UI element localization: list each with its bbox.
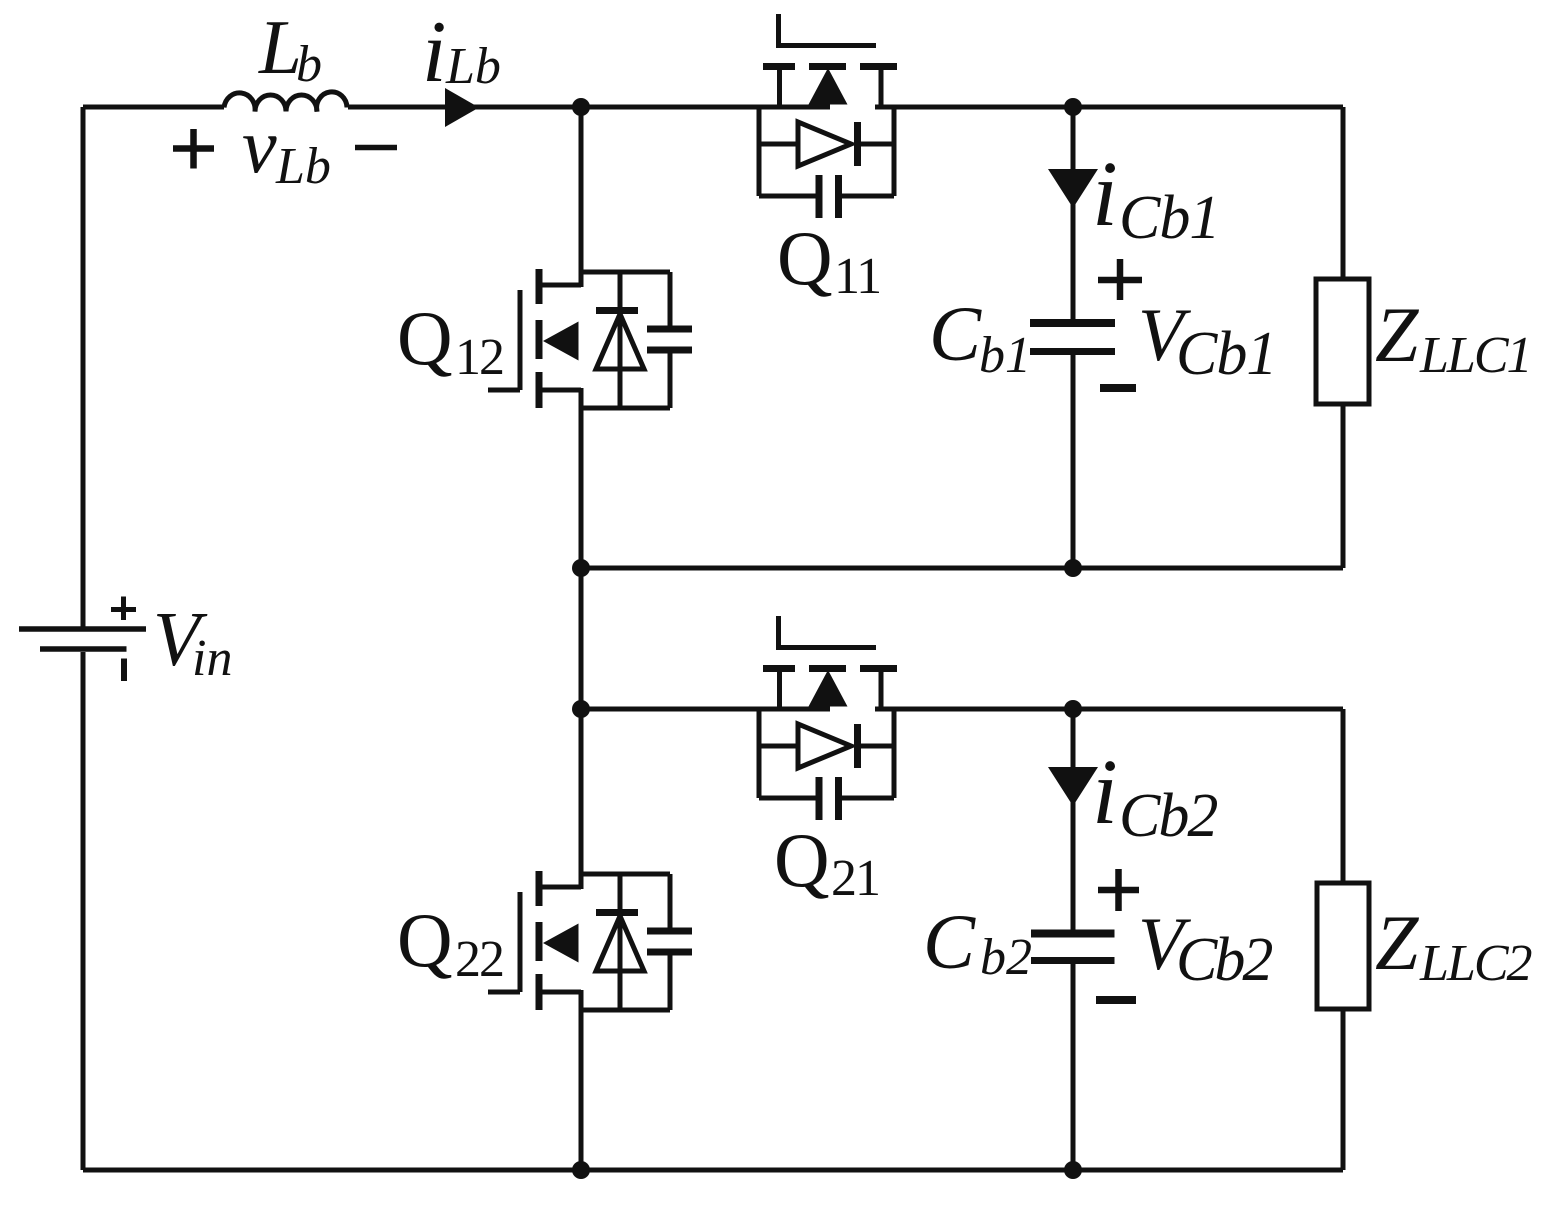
- svg-text:Lb: Lb: [445, 38, 501, 95]
- capacitor Cb2 lower lead: [1071, 964, 1076, 1170]
- Q22 box bottom: [581, 1008, 670, 1013]
- svg-text:22: 22: [455, 931, 503, 988]
- svg-text:Q: Q: [397, 897, 453, 983]
- arrow iLb: [445, 88, 479, 127]
- svg-text:i: i: [1092, 741, 1118, 844]
- svg-text:C: C: [929, 290, 982, 377]
- wire: bottom rail: [83, 1168, 1343, 1173]
- capacitor Cb1 upper lead: [1071, 107, 1076, 320]
- battery V_in positive plate: [19, 626, 146, 632]
- Q22 body arrow: [543, 924, 579, 963]
- Q21 gate lead: [776, 616, 781, 648]
- Q21 gate electrode: [776, 645, 876, 650]
- junction dot phase1 bottom left: [572, 559, 590, 577]
- arrow iCb1: [1048, 169, 1098, 208]
- Q12 box bottom: [581, 406, 670, 411]
- Q22 gate electrode: [518, 892, 523, 992]
- svg-text:Cb1: Cb1: [1119, 184, 1219, 252]
- Q22 body diode cathode line: [618, 874, 623, 1010]
- Q12 channel bars: [536, 269, 543, 408]
- capacitor Cb1 bottom plate: [1030, 348, 1115, 355]
- wire: middle vertical lower (Q22 source to bottom rail): [579, 990, 584, 1170]
- Q22 gate lead: [488, 990, 520, 995]
- svg-text:12: 12: [455, 329, 503, 386]
- minus sign of vLb: [355, 145, 397, 151]
- svg-text:C: C: [923, 898, 976, 985]
- Q12 gate lead: [488, 388, 520, 393]
- Q21 channel bars: [763, 665, 897, 672]
- Q21 body diode cathode bar: [854, 724, 861, 768]
- capacitor Cb2 bottom plate: [1031, 957, 1115, 964]
- capacitor Cb2 upper lead: [1071, 709, 1076, 930]
- wire: right rail phase1 upper: [1341, 107, 1346, 279]
- capacitor Cb2 top plate: [1031, 930, 1115, 938]
- Q12 drain lead: [539, 283, 581, 288]
- Q11 parasitic capacitor plates: [819, 175, 839, 218]
- Q21 body diode cathode line: [858, 744, 895, 749]
- battery V_in negative plate: [40, 646, 127, 652]
- capacitor Cb1 top plate: [1030, 319, 1115, 327]
- Q21 body diode anode line: [759, 744, 798, 749]
- wire: phase2 top rail right of Q21: [875, 707, 1343, 712]
- wire: middle vertical mid (Q12 source to Q22 drain): [579, 388, 584, 889]
- svg-text:LLC1: LLC1: [1419, 327, 1531, 384]
- Q22 body diode cathode bar: [596, 909, 638, 916]
- Q11 drain lead: [879, 67, 884, 107]
- Q11 body diode cathode bar: [854, 122, 861, 166]
- junction dot bottom rail mid: [572, 1161, 590, 1179]
- wire: right rail phase2 upper: [1341, 709, 1346, 883]
- svg-text:Cb2: Cb2: [1176, 926, 1272, 994]
- junction dot Cb2 bottom: [1064, 1161, 1082, 1179]
- wire: phase1 bottom rail: [581, 566, 1343, 571]
- svg-text:Lb: Lb: [275, 138, 331, 195]
- Q11 source lead: [777, 67, 782, 107]
- junction dot Cb1 bottom: [1064, 559, 1082, 577]
- junction dot phase2 top left: [572, 700, 590, 718]
- svg-text:Q: Q: [774, 817, 830, 903]
- battery minus sign: [121, 659, 127, 682]
- svg-text:Z: Z: [1375, 899, 1420, 986]
- Q22 source lead: [539, 990, 581, 995]
- Q21 parasitic capacitor plates: [819, 777, 839, 820]
- Q11 body diode cathode line: [858, 142, 895, 147]
- svg-text:v: v: [242, 102, 277, 189]
- wire: top rail Q11 right to top-right corner: [875, 105, 1343, 110]
- minus sign of VCb2: [1096, 996, 1136, 1004]
- inductor Lb: [224, 92, 347, 112]
- svg-text:Q: Q: [397, 295, 453, 381]
- Q21 body-diode box right: [892, 709, 897, 798]
- capacitor Cb1 lower lead: [1071, 355, 1076, 568]
- svg-text:Cb2: Cb2: [1119, 782, 1217, 850]
- Q22 body diode triangle: [596, 916, 644, 971]
- svg-text:Cb1: Cb1: [1176, 320, 1276, 388]
- arrow iCb2: [1048, 767, 1098, 806]
- Q12 source lead: [539, 388, 581, 393]
- Q11 body diode anode line: [759, 142, 798, 147]
- plus sign of VCb1: [1098, 259, 1142, 300]
- Q21 body arrow: [809, 670, 848, 707]
- wire: right rail phase2 lower: [1341, 1009, 1346, 1170]
- svg-text:21: 21: [831, 850, 879, 907]
- Q22 box top: [581, 872, 670, 877]
- transistor Q11: [759, 14, 897, 218]
- junction dot Cb2 top: [1064, 700, 1082, 718]
- Q12 box right segments: [668, 272, 673, 326]
- Q21 box bottom segments: [759, 796, 816, 801]
- Q11 body diode triangle: [798, 122, 851, 166]
- wire: left rail lower: [81, 652, 86, 1170]
- Q22 parasitic capacitor plates: [647, 931, 692, 952]
- Q11 body-diode box left: [757, 107, 762, 196]
- Q21 drain lead: [879, 669, 884, 709]
- svg-text:Q: Q: [777, 215, 833, 301]
- plus sign of VCb2: [1098, 869, 1139, 911]
- Q21 source lead: [777, 669, 782, 709]
- Q12 body arrow: [543, 322, 579, 361]
- transistor Q12: [488, 269, 692, 408]
- Q11 gate lead: [776, 14, 781, 46]
- Q21 body-diode box left: [757, 709, 762, 798]
- Q12 body diode triangle: [596, 314, 644, 369]
- Q11 gate electrode: [776, 43, 876, 48]
- wire: top rail from left corner to inductor: [83, 105, 224, 110]
- Q22 drain lead: [539, 885, 581, 890]
- svg-text:b2: b2: [980, 929, 1032, 986]
- node A junction dot: [572, 98, 590, 116]
- junction dot Cb1 top: [1064, 98, 1082, 116]
- Q12 body diode cathode bar: [596, 307, 638, 314]
- Q22 box right segments: [668, 874, 673, 928]
- svg-text:b1: b1: [979, 327, 1031, 384]
- Q12 gate electrode: [518, 290, 523, 390]
- transistor Q21: [759, 616, 897, 820]
- svg-text:i: i: [1092, 143, 1118, 246]
- Q11 channel bars: [763, 63, 897, 70]
- Q11 body arrow: [809, 68, 848, 105]
- Q12 body diode cathode line: [618, 272, 623, 408]
- Q11 box bottom segments: [759, 194, 816, 199]
- svg-text:Z: Z: [1375, 291, 1420, 378]
- svg-text:b: b: [296, 36, 322, 93]
- transistor Q22: [488, 871, 692, 1010]
- load Z_LLC1: [1316, 279, 1369, 404]
- plus sign of vLb: [173, 129, 214, 169]
- load Z_LLC2: [1317, 883, 1369, 1009]
- wire: right rail phase1 lower: [1341, 404, 1346, 568]
- Q21 body diode triangle: [798, 724, 851, 768]
- svg-text:i: i: [422, 4, 446, 101]
- wire: phase2 top rail left of Q21: [581, 707, 830, 712]
- Q11 body-diode box right: [892, 107, 897, 196]
- wire: middle vertical upper (node A to Q12 drain): [579, 107, 584, 287]
- wire: top rail inductor to Q11 left: [348, 105, 830, 110]
- battery plus sign: [111, 597, 136, 621]
- svg-text:11: 11: [834, 248, 880, 305]
- svg-text:in: in: [192, 630, 232, 687]
- svg-text:LLC2: LLC2: [1419, 935, 1532, 992]
- Q12 box top: [581, 270, 670, 275]
- Q12 parasitic capacitor plates: [647, 329, 692, 350]
- minus sign of VCb1: [1100, 384, 1136, 392]
- wire: left rail upper: [81, 107, 86, 627]
- Q22 channel bars: [536, 871, 543, 1010]
